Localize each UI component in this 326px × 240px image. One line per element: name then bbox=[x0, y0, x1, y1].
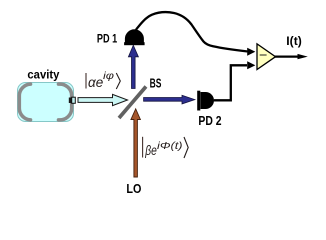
LO beam arrow bbox=[131, 109, 141, 177]
wire from PD2 to amplifier lower input bbox=[214, 65, 247, 100]
output arrowhead bbox=[298, 54, 308, 59]
svg-text:iΦ(t): iΦ(t) bbox=[157, 140, 183, 152]
ket beta state label bbox=[143, 137, 189, 158]
cable from PD1 to amplifier bbox=[136, 12, 247, 51]
svg-text:I(t): I(t) bbox=[286, 36, 302, 48]
svg-text:βe: βe bbox=[145, 143, 157, 158]
svg-text:cavity: cavity bbox=[27, 68, 59, 82]
svg-text:PD 1: PD 1 bbox=[97, 31, 118, 45]
cavity left mirror bracket bbox=[19, 84, 30, 120]
photodiode PD2 bbox=[197, 91, 200, 111]
svg-text:BS: BS bbox=[150, 77, 162, 91]
minus sign inside amplifier bbox=[260, 54, 267, 56]
arrowhead into amplifier lower input bbox=[247, 61, 255, 69]
arrowhead into amplifier upper input bbox=[247, 48, 255, 56]
output wire bbox=[275, 55, 300, 57]
cavity output coupler bbox=[69, 98, 72, 104]
amplifier U1 (difference amp) bbox=[257, 44, 276, 70]
cavity right mirror bracket bbox=[59, 84, 72, 120]
transmitted beam arrow (BS to PD2) bbox=[144, 95, 195, 104]
ket alpha state label bbox=[86, 71, 120, 90]
svg-text:iφ: iφ bbox=[103, 71, 115, 82]
input beam arrow (cavity to BS) bbox=[78, 94, 128, 105]
reflected beam arrow (BS to PD1) bbox=[128, 45, 138, 88]
cavity body bbox=[18, 83, 74, 122]
beam splitter BS bbox=[119, 87, 146, 119]
svg-text:αe: αe bbox=[88, 75, 103, 90]
svg-text:PD 2: PD 2 bbox=[198, 114, 221, 128]
svg-text:LO: LO bbox=[126, 181, 141, 196]
photodiode PD1 bbox=[124, 42, 145, 45]
